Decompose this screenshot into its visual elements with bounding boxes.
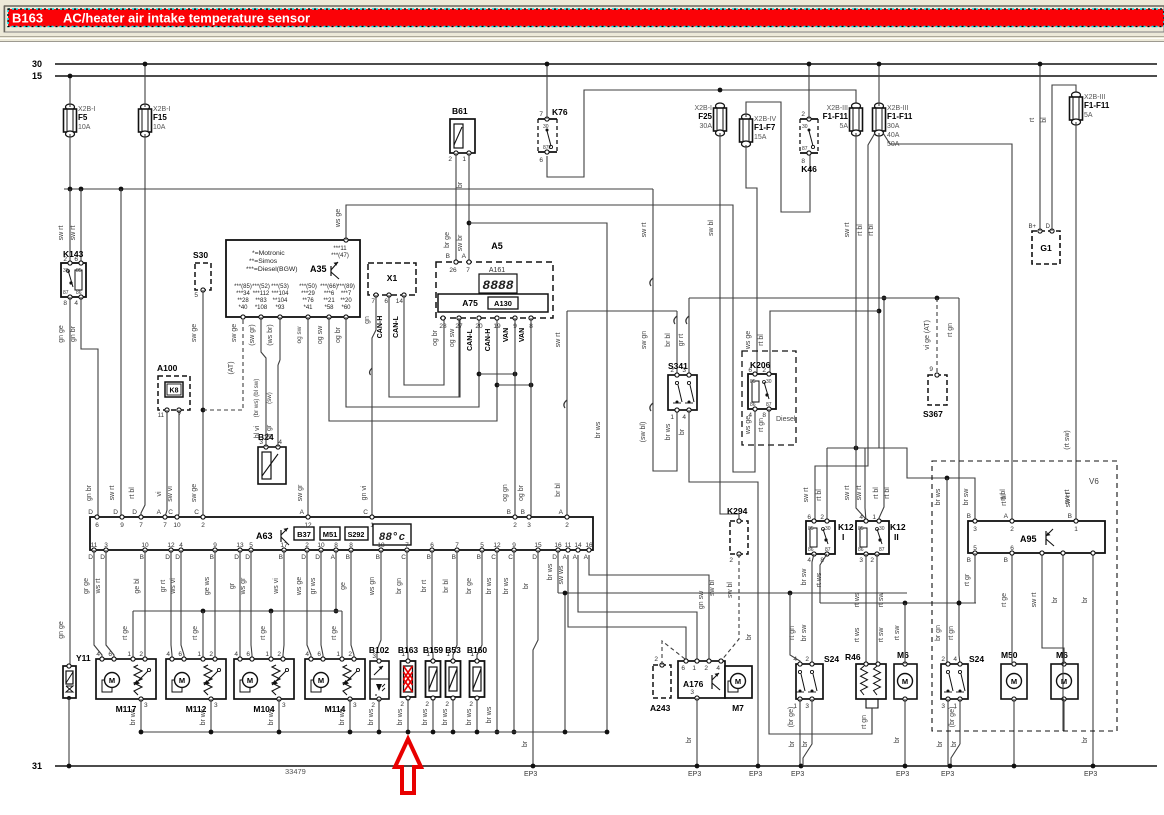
svg-text:2: 2 bbox=[704, 665, 708, 672]
wire rt gr A95 pin 5 to node bbox=[964, 553, 975, 603]
svg-text:D: D bbox=[245, 554, 250, 561]
wire br S24 pin 3 to EP3 bbox=[802, 699, 812, 766]
svg-text:**83: **83 bbox=[255, 298, 267, 304]
wire rt ge to M112 pin 1 bbox=[192, 611, 203, 659]
svg-text:5: 5 bbox=[480, 542, 484, 549]
svg-text:**104: **104 bbox=[273, 298, 288, 304]
svg-text:S30: S30 bbox=[193, 250, 208, 260]
wire vi A100 pin 11 to A63 pin A7 bbox=[156, 410, 167, 517]
wire rt bl F15 down to A63 pin D7 bbox=[129, 134, 145, 517]
svg-text:(br ge): (br ge) bbox=[788, 707, 795, 728]
svg-text:2: 2 bbox=[941, 656, 945, 663]
wire gr to M104 pin 4 bbox=[229, 550, 240, 659]
svg-text:sw rt: sw rt bbox=[1065, 493, 1072, 508]
svg-text:***7: ***7 bbox=[341, 291, 352, 297]
svg-text:B: B bbox=[1004, 557, 1008, 564]
wire sw rt F1-F11 to K12 II pin 4 bbox=[844, 133, 866, 521]
control unit A100 with K8 bbox=[157, 363, 190, 419]
svg-text:6: 6 bbox=[807, 514, 811, 521]
wire rt ge to M117 pin 1 bbox=[122, 611, 133, 659]
wire (rt sw) sw rt fuse to A95 pin 1 bbox=[1064, 122, 1076, 521]
svg-text:C: C bbox=[194, 509, 199, 516]
wire br ws br gn to S24 II pin 2 bbox=[935, 478, 947, 664]
svg-text:9: 9 bbox=[929, 366, 933, 373]
wire br ws B163 to ground bus bbox=[397, 699, 410, 734]
wire F1-F7 bottom to K206 pin 6 bbox=[745, 145, 757, 374]
wire gn ge K143 pin 8 to Y11 bbox=[58, 297, 70, 666]
svg-text:rt bl: rt bl bbox=[857, 224, 864, 236]
svg-text:*58: *58 bbox=[324, 305, 334, 311]
bus 31 bbox=[32, 761, 1157, 771]
svg-text:85: 85 bbox=[750, 379, 756, 385]
svg-text:EP3: EP3 bbox=[749, 771, 762, 778]
svg-text:12: 12 bbox=[304, 522, 312, 529]
wire rt bl F1-F11 centre to node y448 bbox=[856, 133, 881, 500]
svg-text:B: B bbox=[279, 554, 283, 561]
svg-text:ws ge: ws ge bbox=[335, 209, 342, 228]
wire ws vi to M104 pin 2 bbox=[273, 550, 284, 659]
wire br ws B159 to ground bus bbox=[422, 699, 435, 734]
svg-text:B: B bbox=[376, 554, 380, 561]
svg-text:2: 2 bbox=[565, 522, 569, 529]
svg-text:sw bl: sw bl bbox=[727, 582, 734, 598]
svg-text:***29: ***29 bbox=[301, 291, 315, 297]
wire sw vi A100 pin 7 to A63 pin C10 bbox=[167, 410, 179, 517]
svg-text:br ws: br ws bbox=[466, 708, 473, 725]
svg-text:(sw): (sw) bbox=[266, 392, 273, 404]
svg-text:A176: A176 bbox=[683, 679, 704, 689]
svg-text:K46: K46 bbox=[801, 164, 817, 174]
svg-text:K12: K12 bbox=[890, 522, 906, 532]
svg-text:rt ge: rt ge bbox=[260, 626, 267, 640]
wire ge ws to M112 pin 2 bbox=[204, 550, 215, 659]
svg-text:ws vi: ws vi bbox=[170, 578, 177, 595]
wire br rt to B159 pin 1 bbox=[421, 550, 433, 659]
svg-text:CAN-L: CAN-L bbox=[467, 328, 474, 350]
wire (sw gr) bl vi A35 to B24 pin 3 bbox=[249, 317, 266, 447]
svg-text:CAN-H: CAN-H bbox=[485, 329, 492, 352]
svg-text:**76: **76 bbox=[302, 298, 314, 304]
svg-text:F1-F11: F1-F11 bbox=[887, 112, 913, 121]
svg-text:B: B bbox=[346, 554, 350, 561]
svg-text:***(66): ***(66) bbox=[320, 284, 338, 290]
svg-text:sw ge: sw ge bbox=[191, 484, 198, 502]
fuse F1-F11 5A right bbox=[1070, 92, 1110, 125]
connector S30 bbox=[193, 250, 211, 299]
svg-text:br ws: br ws bbox=[268, 708, 275, 725]
svg-text:EP3: EP3 bbox=[1084, 771, 1097, 778]
svg-text:12: 12 bbox=[167, 542, 175, 549]
svg-text:2: 2 bbox=[305, 542, 309, 549]
svg-text:br bl: br bl bbox=[555, 483, 562, 497]
svg-text:***=Diesel(BGW): ***=Diesel(BGW) bbox=[246, 266, 298, 273]
wire gn sw A63 pin A14 to A176 pin 1 bbox=[578, 555, 705, 659]
svg-text:M50: M50 bbox=[1001, 650, 1018, 660]
svg-text:8: 8 bbox=[762, 412, 766, 419]
wire sw rt A95 to M6 second bbox=[1031, 553, 1064, 664]
svg-text:sw rt: sw rt bbox=[70, 226, 77, 241]
svg-text:2: 2 bbox=[805, 656, 809, 663]
svg-text:sw rt: sw rt bbox=[856, 486, 863, 501]
svg-text:B: B bbox=[452, 554, 456, 561]
sensor B102 bbox=[369, 645, 390, 709]
svg-text:br ws: br ws bbox=[935, 488, 942, 505]
svg-text:sw rt: sw rt bbox=[555, 333, 562, 348]
svg-text:br ws: br ws bbox=[665, 423, 672, 440]
svg-text:3: 3 bbox=[282, 702, 286, 709]
wire sw rt K143 pin 2 bbox=[58, 189, 70, 263]
wire rt ws K12 I pin 8 to node y603 bbox=[816, 554, 827, 603]
svg-text:3: 3 bbox=[805, 703, 809, 710]
svg-text:sw rt: sw rt bbox=[641, 223, 648, 238]
wire br A63 pin D15 to EP3 bbox=[522, 550, 538, 778]
svg-text:B: B bbox=[446, 253, 450, 260]
svg-text:2: 2 bbox=[654, 656, 658, 663]
svg-text:A: A bbox=[1004, 513, 1009, 520]
svg-text:br ws: br ws bbox=[422, 708, 429, 725]
svg-text:S341: S341 bbox=[668, 361, 688, 371]
svg-text:B: B bbox=[477, 554, 481, 561]
svg-text:D: D bbox=[234, 554, 239, 561]
svg-text:87: 87 bbox=[825, 547, 831, 553]
svg-text:4: 4 bbox=[793, 656, 797, 663]
svg-text:2: 2 bbox=[469, 701, 473, 708]
svg-text:rt bl: rt bl bbox=[1001, 494, 1008, 506]
fuse F1-F11 30/40/50A bbox=[873, 103, 913, 148]
svg-text:A63: A63 bbox=[256, 531, 273, 541]
svg-text:C: C bbox=[168, 509, 173, 516]
svg-text:***(47): ***(47) bbox=[331, 253, 349, 259]
svg-text:og sw: og sw bbox=[296, 326, 303, 343]
svg-text:X2B-III: X2B-III bbox=[887, 105, 908, 112]
svg-text:3: 3 bbox=[859, 557, 863, 564]
svg-text:33479: 33479 bbox=[285, 767, 306, 776]
wire sw ge S30 to A63 pin C2 bbox=[191, 290, 205, 517]
svg-text:B53: B53 bbox=[445, 645, 461, 655]
motor M114 bbox=[305, 651, 365, 714]
svg-text:br: br bbox=[1052, 596, 1059, 603]
wire og br A5 pin 28 bbox=[432, 329, 439, 346]
wire sw bl F25 down to K294 bbox=[708, 133, 739, 521]
svg-text:rt sw: rt sw bbox=[878, 592, 885, 608]
svg-text:gr rt: gr rt bbox=[678, 334, 685, 347]
switch S24 bbox=[793, 654, 839, 710]
svg-text:4: 4 bbox=[234, 651, 238, 658]
svg-text:sw bl: sw bl bbox=[708, 220, 715, 236]
svg-text:B163: B163 bbox=[12, 11, 43, 26]
svg-text:sw gr: sw gr bbox=[297, 484, 304, 501]
svg-text:1: 1 bbox=[197, 651, 201, 658]
wire VAN A5 pin 9 to A63 pin B2 bbox=[502, 318, 515, 517]
svg-text:vi ge (AT): vi ge (AT) bbox=[924, 320, 931, 350]
svg-text:rt bl: rt bl bbox=[129, 487, 136, 499]
svg-text:3: 3 bbox=[973, 526, 977, 533]
svg-text:4: 4 bbox=[716, 665, 720, 672]
svg-text:6: 6 bbox=[681, 665, 685, 672]
svg-text:10: 10 bbox=[141, 542, 149, 549]
wire ws vi to M112 pin 6 bbox=[170, 550, 184, 659]
svg-text:B160: B160 bbox=[467, 645, 488, 655]
svg-text:10A: 10A bbox=[78, 124, 91, 131]
svg-text:br ws: br ws bbox=[503, 577, 510, 594]
svg-text:rt gn: rt gn bbox=[948, 626, 955, 640]
wire ws rt to M117 pin 6 bbox=[95, 550, 114, 659]
svg-text:A: A bbox=[573, 554, 578, 561]
svg-text:2: 2 bbox=[400, 701, 404, 708]
svg-text:br: br bbox=[1082, 736, 1089, 743]
wire F5 down to node y189 bbox=[69, 134, 71, 189]
svg-text:***(52): ***(52) bbox=[252, 284, 270, 290]
sensor B163 highlighted bbox=[398, 645, 419, 708]
control unit A5 with A161 display bbox=[436, 241, 553, 330]
svg-text:4: 4 bbox=[278, 439, 282, 446]
svg-text:rt bl: rt bl bbox=[816, 489, 823, 501]
svg-text:2: 2 bbox=[445, 701, 449, 708]
svg-text:3: 3 bbox=[353, 702, 357, 709]
sensor B24 bbox=[258, 432, 286, 484]
svg-text:D: D bbox=[165, 554, 170, 561]
svg-text:D: D bbox=[1046, 224, 1051, 230]
wire sw bl A63 pin A16 to A176 pin 2 bbox=[589, 555, 716, 659]
wire F5 up to bus 15 bbox=[68, 74, 73, 107]
svg-text:6: 6 bbox=[1010, 545, 1014, 552]
svg-text:rt gn: rt gn bbox=[861, 715, 868, 729]
svg-text:6: 6 bbox=[539, 157, 543, 164]
svg-text:D: D bbox=[315, 554, 320, 561]
wire br sw into A95 pin 3 bbox=[963, 488, 970, 506]
svg-text:30: 30 bbox=[63, 268, 69, 274]
svg-text:rt ge: rt ge bbox=[331, 626, 338, 640]
svg-text:K76: K76 bbox=[552, 107, 568, 117]
svg-text:sw rt: sw rt bbox=[58, 226, 65, 241]
svg-text:6: 6 bbox=[95, 522, 99, 529]
svg-text:4: 4 bbox=[953, 656, 957, 663]
svg-text:D: D bbox=[113, 509, 118, 516]
svg-text:7: 7 bbox=[405, 542, 409, 549]
svg-text:B61: B61 bbox=[452, 106, 468, 116]
control unit A63 bbox=[88, 509, 593, 561]
svg-text:D: D bbox=[301, 554, 306, 561]
ground bus br ws bbox=[141, 593, 609, 734]
wire og sw A35 to A5 pin 19 bbox=[317, 317, 497, 421]
svg-text:4: 4 bbox=[305, 651, 309, 658]
wire br M6 second down bbox=[1063, 699, 1065, 731]
svg-text:***112: ***112 bbox=[253, 291, 270, 297]
svg-text:***104: ***104 bbox=[271, 291, 289, 297]
motor M6 bbox=[894, 650, 917, 701]
svg-text:85: 85 bbox=[76, 268, 82, 274]
svg-text:**28: **28 bbox=[237, 298, 249, 304]
svg-text:br ws: br ws bbox=[200, 708, 207, 725]
svg-text:bl vi: bl vi bbox=[254, 425, 261, 438]
wire ws ge A35 top to K206 path bbox=[335, 205, 755, 472]
svg-text:M7: M7 bbox=[732, 703, 744, 713]
svg-text:86: 86 bbox=[750, 402, 756, 408]
svg-text:br: br bbox=[522, 740, 529, 747]
svg-text:3: 3 bbox=[527, 522, 531, 529]
wire gn X1 pin 7 to A63 pin C1 bbox=[361, 295, 376, 517]
svg-text:***(53): ***(53) bbox=[271, 284, 289, 290]
svg-text:X2B-III: X2B-III bbox=[827, 105, 848, 112]
wire br ws A63 pin C9 to ground bus bbox=[503, 550, 516, 734]
wire br ge B61 pin 2 to A5 pin B bbox=[444, 153, 456, 262]
svg-text:sw vi: sw vi bbox=[167, 486, 174, 502]
svg-text:(br ws) (bl sw): (br ws) (bl sw) bbox=[253, 379, 260, 418]
svg-text:br ws: br ws bbox=[368, 708, 375, 725]
svg-text:4: 4 bbox=[96, 651, 100, 658]
svg-text:4: 4 bbox=[807, 557, 811, 564]
wire br sw K12 I pin 4 to S24 pin 2 bbox=[801, 554, 814, 664]
svg-text:30A: 30A bbox=[700, 123, 713, 130]
svg-text:br sw: br sw bbox=[801, 568, 808, 586]
svg-text:B159: B159 bbox=[423, 645, 444, 655]
svg-text:D: D bbox=[132, 509, 137, 516]
sensor B159 bbox=[423, 645, 444, 708]
node line F1-F11 to A95 pin 2 bbox=[883, 133, 1012, 521]
sensor B53 bbox=[445, 645, 461, 708]
svg-text:br ws: br ws bbox=[547, 563, 554, 580]
svg-text:B: B bbox=[521, 509, 525, 516]
svg-text:1: 1 bbox=[370, 522, 374, 529]
motor M104 bbox=[234, 651, 294, 714]
svg-text:6: 6 bbox=[430, 542, 434, 549]
svg-text:3: 3 bbox=[144, 702, 148, 709]
svg-text:*60: *60 bbox=[341, 305, 351, 311]
motor M50 bbox=[1001, 650, 1027, 701]
svg-text:ge ws: ge ws bbox=[204, 576, 211, 595]
svg-text:17: 17 bbox=[280, 542, 288, 549]
svg-text:gn ge: gn ge bbox=[58, 621, 65, 639]
svg-text:ws ge: ws ge bbox=[745, 416, 752, 435]
svg-text:7: 7 bbox=[371, 298, 375, 305]
svg-text:vi: vi bbox=[156, 491, 163, 497]
fuse F1-F11 5A bbox=[823, 103, 863, 136]
wire br S24 second to EP3 bbox=[937, 699, 960, 778]
svg-text:9: 9 bbox=[120, 522, 124, 529]
wire CAN-H A5 pin 19 bbox=[485, 329, 499, 388]
svg-text:*41: *41 bbox=[303, 305, 313, 311]
node line y448 to A95 pin 3 bbox=[827, 446, 975, 521]
svg-text:2: 2 bbox=[139, 651, 143, 658]
wire ge to M114 pin 2 bbox=[340, 550, 354, 659]
svg-text:12: 12 bbox=[493, 542, 501, 549]
wire rt ge to M104 pin 1 bbox=[260, 611, 271, 659]
wire br ws B160 to ground bus bbox=[466, 699, 479, 734]
svg-text:2: 2 bbox=[729, 557, 733, 564]
svg-text:rt gn: rt gn bbox=[758, 418, 765, 432]
svg-text:2: 2 bbox=[513, 522, 517, 529]
svg-text:rt bl: rt bl bbox=[873, 487, 880, 499]
svg-text:br gr: br gr bbox=[266, 424, 273, 439]
wire rt bus 30 to G1 B+ bbox=[1029, 62, 1042, 231]
svg-text:5: 5 bbox=[194, 292, 198, 299]
svg-text:rt ws: rt ws bbox=[854, 592, 861, 607]
motor M117 bbox=[96, 651, 156, 714]
svg-text:87: 87 bbox=[802, 146, 808, 152]
wire sw rt node to A63 pin D9 bbox=[109, 189, 121, 517]
node line rt bl y311 to K206 pin 2 bbox=[758, 311, 879, 374]
wire br bl to B53 pin 1 bbox=[443, 550, 457, 659]
wire br ws M112 pin 3 to ground bus bbox=[200, 699, 213, 734]
svg-text:4: 4 bbox=[179, 542, 183, 549]
svg-text:sw rt: sw rt bbox=[844, 486, 851, 501]
wire gr ws to M114 pin 6 bbox=[310, 550, 323, 659]
svg-text:br ws: br ws bbox=[442, 708, 449, 725]
svg-text:br: br bbox=[894, 736, 901, 743]
wire ws ge to M114 pin 4 bbox=[296, 550, 311, 659]
svg-text:1: 1 bbox=[265, 651, 269, 658]
svg-text:14: 14 bbox=[396, 298, 404, 305]
svg-text:rt ws: rt ws bbox=[854, 627, 861, 642]
svg-text:*93: *93 bbox=[275, 305, 285, 311]
wire br S341 pin 4 to EP3 bbox=[679, 410, 762, 778]
wire ge bl to M117 pin 2 bbox=[134, 550, 145, 659]
wire sw gr A35 to A63 pin A12 bbox=[296, 317, 308, 517]
svg-text:br sw: br sw bbox=[963, 488, 970, 506]
svg-text:B: B bbox=[210, 554, 214, 561]
svg-text:15: 15 bbox=[534, 542, 542, 549]
svg-text:87: 87 bbox=[766, 402, 772, 408]
svg-text:16: 16 bbox=[554, 542, 562, 549]
svg-text:M: M bbox=[179, 676, 185, 685]
svg-text:4: 4 bbox=[859, 514, 863, 521]
svg-text:7: 7 bbox=[466, 267, 470, 274]
svg-text:8: 8 bbox=[63, 300, 67, 307]
wire F15 up to bus 30 bbox=[143, 62, 148, 107]
svg-text:sw ws: sw ws bbox=[558, 565, 565, 585]
svg-text:86: 86 bbox=[808, 547, 814, 553]
svg-text:B102: B102 bbox=[369, 645, 390, 655]
svg-text:20: 20 bbox=[475, 323, 483, 330]
svg-text:A130: A130 bbox=[494, 299, 512, 308]
svg-text:br ws: br ws bbox=[486, 577, 493, 594]
svg-text:X1: X1 bbox=[387, 273, 398, 283]
svg-text:sw ge: sw ge bbox=[231, 324, 238, 342]
svg-text:14: 14 bbox=[574, 542, 582, 549]
relay K12 II bbox=[856, 514, 906, 564]
svg-text:6: 6 bbox=[384, 298, 388, 305]
wire A63 pin D16 to node y593 bbox=[547, 550, 558, 593]
wire br ws M117 pin 3 to ground bus bbox=[130, 699, 143, 734]
svg-text:A: A bbox=[331, 554, 336, 561]
node line y189 bbox=[64, 187, 653, 192]
svg-text:rt sw: rt sw bbox=[894, 625, 901, 641]
svg-text:sw rt: sw rt bbox=[803, 488, 810, 503]
svg-text:B+: B+ bbox=[1028, 224, 1036, 230]
svg-text:M: M bbox=[109, 676, 115, 685]
control unit A176 with motor M7 bbox=[678, 659, 752, 713]
svg-text:A: A bbox=[584, 554, 589, 561]
node line rt ge y611 bbox=[133, 609, 342, 614]
svg-text:ws gn: ws gn bbox=[369, 577, 376, 596]
svg-text:2: 2 bbox=[348, 651, 352, 658]
svg-text:br: br bbox=[679, 428, 686, 435]
svg-text:rt bl: rt bl bbox=[884, 487, 891, 499]
svg-text:30: 30 bbox=[825, 526, 831, 532]
fuse F5 bbox=[64, 104, 96, 137]
wire rt gn node to S24 pin 4 bbox=[789, 593, 800, 664]
svg-text:30: 30 bbox=[766, 379, 772, 385]
svg-text:br: br bbox=[523, 582, 530, 589]
svg-text:86: 86 bbox=[76, 290, 82, 296]
svg-text:*40: *40 bbox=[238, 305, 248, 311]
svg-text:9: 9 bbox=[512, 542, 516, 549]
svg-text:10A: 10A bbox=[153, 124, 166, 131]
svg-text:F5: F5 bbox=[78, 113, 88, 122]
wire K76 pin 7 to bus 30 bbox=[545, 62, 550, 119]
svg-text:ws ge: ws ge bbox=[745, 331, 752, 350]
svg-text:rt: rt bbox=[1029, 118, 1036, 122]
